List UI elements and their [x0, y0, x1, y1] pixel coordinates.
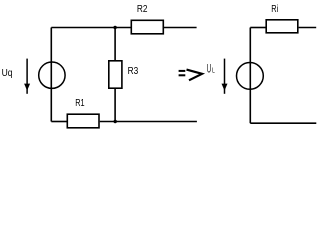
svg-text:R1: R1 — [75, 98, 85, 109]
wire: right circuit top-left segment — [250, 27, 265, 29]
label UL — [207, 63, 215, 75]
wire: R3 top lead — [114, 28, 116, 61]
resistor Ri — [266, 20, 298, 33]
implication symbol => — [179, 70, 202, 81]
resistor R1 — [67, 114, 99, 128]
wire: bottom rail to open terminal (bottom) — [100, 121, 197, 123]
svg-text:Uq: Uq — [2, 67, 13, 79]
svg-text:L: L — [212, 65, 215, 74]
voltage source UL (circle) — [237, 63, 264, 90]
voltage source Uq (circle) — [39, 62, 65, 88]
wire: left vertical branch through source — [50, 28, 52, 122]
wire: R3 bottom lead — [114, 89, 116, 122]
resistor R2 — [131, 20, 163, 34]
svg-text:U: U — [207, 63, 211, 75]
wire: right circuit left vertical branch through source — [249, 28, 251, 124]
wire: left circuit top rail (source top to R2 left lead) — [51, 27, 131, 29]
svg-text:R2: R2 — [137, 4, 148, 15]
voltage arrow UL (pointing down) — [222, 59, 228, 94]
wire: bottom rail left segment (source bottom to R1) — [51, 121, 67, 123]
svg-text:R3: R3 — [128, 66, 139, 77]
junction node (bottom, R3 tap) — [114, 120, 117, 123]
wire: R2 right lead to open terminal (top) — [164, 27, 197, 29]
svg-text:Ri: Ri — [271, 4, 278, 15]
voltage arrow Uq (pointing down) — [24, 59, 30, 94]
resistor R3 — [109, 61, 122, 88]
junction node (top, R3 tap) — [113, 26, 116, 29]
wire: Ri right lead to open terminal (top) — [299, 27, 317, 29]
wire: right circuit bottom rail to open terminal — [250, 122, 316, 124]
